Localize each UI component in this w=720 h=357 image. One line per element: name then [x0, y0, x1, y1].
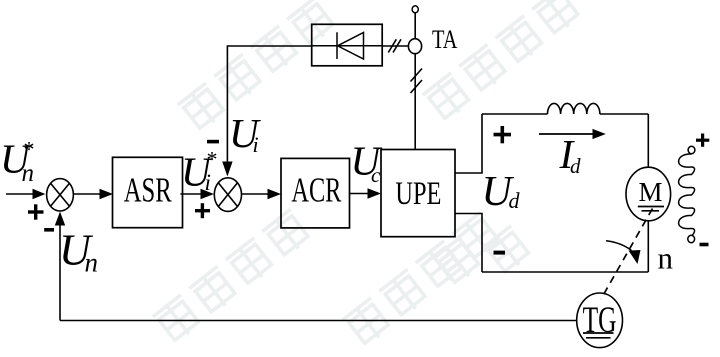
- plus sign at summer 1 input: [28, 204, 44, 219]
- current transformer TA: [408, 39, 421, 54]
- minus sign armature circuit: [494, 251, 506, 255]
- wire ASR to summing junction 2: [180, 189, 214, 199]
- wire summer 1 to ASR: [74, 189, 114, 199]
- node Ui label: [229, 110, 261, 157]
- wire input to summing junction 1: [6, 189, 45, 199]
- node Ud label: [482, 169, 521, 215]
- svg-text:M: M: [638, 177, 662, 207]
- wire TG to speed feedback: [60, 320, 577, 322]
- AC hatch marks on vertical wire: [411, 69, 423, 94]
- block ASR: [113, 157, 183, 227]
- svg-text:*: *: [24, 137, 35, 162]
- svg-text:*: *: [207, 146, 218, 171]
- svg-text:d: d: [509, 188, 521, 213]
- wire armature loop right top to motor: [647, 114, 649, 168]
- svg-text:c: c: [371, 163, 381, 187]
- summing junction 1: [47, 179, 74, 211]
- terminal node field top: [688, 146, 695, 153]
- plus sign at summer 2 input: [195, 203, 210, 218]
- rotation arrow: [606, 241, 641, 264]
- wire armature loop top: [482, 113, 648, 115]
- wire motor to loop bottom: [647, 221, 649, 272]
- wire UPE output bottom: [455, 214, 482, 273]
- current Id arrow: [539, 129, 606, 139]
- svg-text:n: n: [85, 248, 99, 278]
- node Id label: [559, 131, 582, 178]
- minus sign field winding: [700, 243, 709, 247]
- svg-text:ASR: ASR: [124, 171, 172, 210]
- wire TA vertical to UPE: [414, 13, 416, 150]
- wire speed feedback vertical with arrow: [55, 212, 65, 321]
- AC hatch marks on horizontal wire: [388, 39, 401, 52]
- node Ui* label: [181, 146, 218, 195]
- minus sign at summer 2 feedback: [207, 140, 219, 144]
- diode D1: [312, 32, 382, 59]
- motor M: [626, 167, 671, 221]
- diode detector box: [312, 24, 383, 66]
- node Un label: [59, 226, 98, 278]
- shaft dashed line motor to TG: [601, 209, 653, 300]
- plus sign field winding: [696, 134, 709, 147]
- minus sign at summer 1 feedback: [44, 228, 54, 232]
- block ACR: [281, 158, 350, 228]
- svg-text:d: d: [570, 154, 581, 178]
- field winding Lf: [679, 154, 695, 236]
- wire ACR to UPE: [349, 188, 381, 198]
- inductor Ld: [548, 103, 600, 114]
- svg-text:TA: TA: [432, 25, 458, 54]
- wire summer 2 to ACR: [242, 189, 282, 199]
- tachogenerator TG: [577, 293, 623, 348]
- plus sign armature circuit: [494, 126, 512, 143]
- svg-text:UPE: UPE: [395, 176, 441, 212]
- terminal node field bottom: [688, 235, 695, 242]
- block UPE: [381, 150, 455, 237]
- wire diode box to TA: [382, 45, 408, 47]
- wire current feedback from diode box to summer 2: [222, 46, 312, 177]
- wire armature loop bottom: [482, 271, 648, 273]
- svg-text:ACR: ACR: [291, 170, 341, 209]
- node Uc label: [351, 137, 383, 187]
- svg-text:TG: TG: [583, 300, 617, 341]
- node Un* input label: [0, 136, 35, 188]
- summing junction 2: [214, 178, 241, 212]
- svg-text:n: n: [658, 241, 674, 276]
- wire UPE output top: [455, 114, 482, 173]
- svg-text:n: n: [22, 160, 35, 187]
- svg-text:i: i: [253, 132, 259, 157]
- terminal node top: [412, 6, 418, 13]
